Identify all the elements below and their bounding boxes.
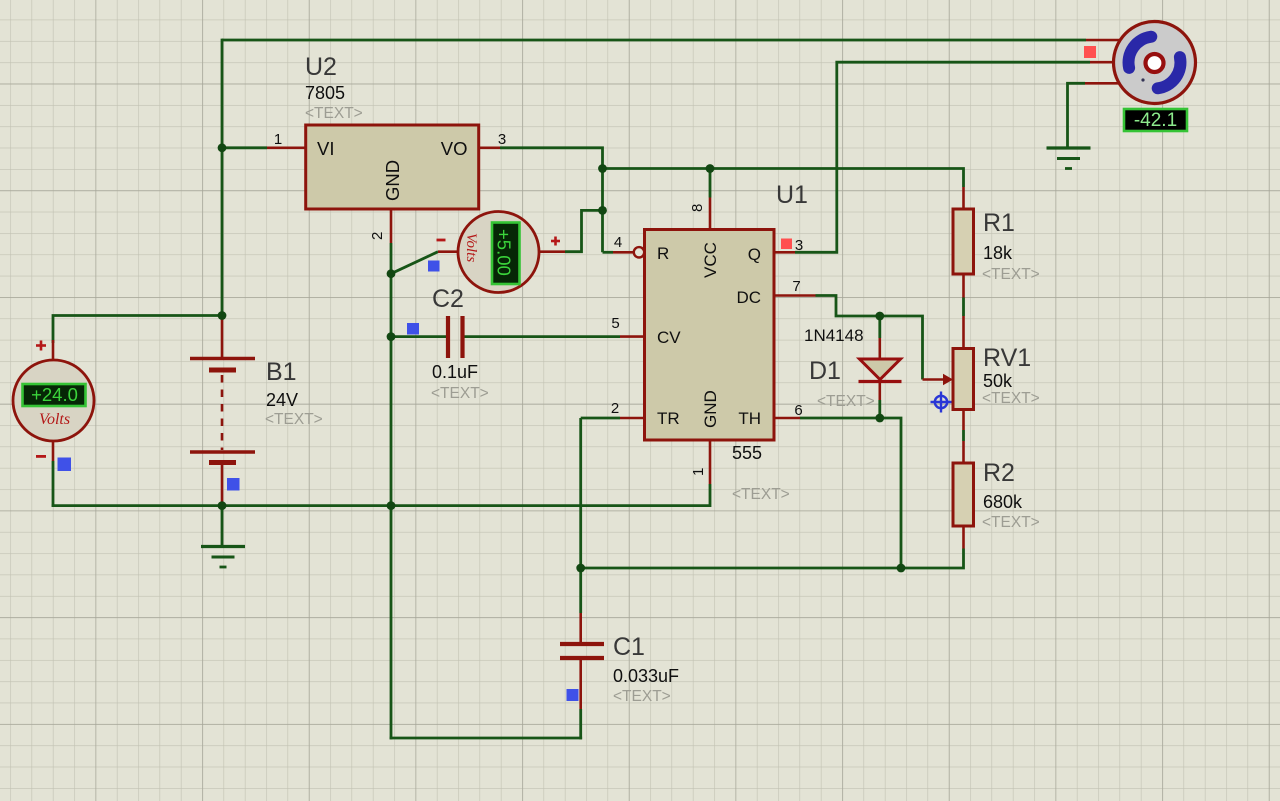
svg-text:1N4148: 1N4148 [804, 326, 864, 345]
wire U2 pin1 link [222, 146, 267, 149]
pin R2 top stub [962, 441, 965, 463]
origin crosshair blue near RV1 [931, 392, 952, 413]
pin voltmeter2 - stub [438, 250, 459, 253]
svg-text:680k: 680k [983, 492, 1023, 512]
potentiometer RV1 body [953, 349, 974, 410]
battery B1 cell2 long plate [190, 450, 255, 453]
svg-text:Volts: Volts [463, 233, 479, 262]
svg-text:7805: 7805 [305, 83, 345, 103]
pin RV1 top stub [962, 316, 965, 349]
svg-text:Volts: Volts [39, 411, 70, 428]
capacitor C2 left plate [446, 316, 450, 358]
battery B1 cell1 long plate [190, 357, 255, 360]
pin U1.4 stub with inversion bubble [613, 251, 633, 254]
wire U2 VO to node [500, 148, 603, 253]
motor display [1124, 109, 1187, 131]
VM1 plus mark [36, 344, 46, 347]
svg-text:R2: R2 [983, 459, 1015, 487]
wire R1 to RV1 mid [962, 298, 965, 317]
svg-text:<TEXT>: <TEXT> [613, 688, 671, 705]
pin R1 bottom stub [962, 274, 965, 298]
wire diagonal to voltmeter2 minus [391, 252, 438, 274]
wire bottom-left ground rail [52, 484, 710, 506]
junction [875, 312, 884, 321]
svg-text:50k: 50k [983, 371, 1013, 391]
svg-text:D1: D1 [809, 357, 841, 385]
diode D1 cathode bar [859, 380, 902, 383]
wire U1 pin8 drop [709, 169, 712, 198]
junction [387, 269, 396, 278]
resistor R1 body [953, 209, 974, 274]
VM2 display [492, 223, 520, 285]
pin D1 anode stub [878, 338, 881, 358]
svg-text:<TEXT>: <TEXT> [431, 385, 489, 402]
ground below B1 [201, 545, 245, 548]
wire motor terminal3 to ground [1068, 83, 1086, 148]
wire voltmeter bottom link [52, 461, 55, 507]
wire C2 left link [391, 335, 446, 338]
svg-text:R: R [657, 244, 669, 263]
regulator U2 body [306, 125, 479, 209]
svg-text:VCC: VCC [701, 242, 720, 278]
svg-text:18k: 18k [983, 243, 1013, 263]
wire U1 Q output to motor [795, 62, 1090, 252]
ground below motor [1047, 146, 1091, 149]
timer U1 body [645, 230, 775, 441]
voltmeter VM1 body [13, 360, 94, 441]
pin U2.2 stub [390, 208, 393, 243]
origin square blue near switch node [428, 261, 440, 272]
origin square blue near B1 [227, 478, 240, 491]
motor arc lower-right [1158, 57, 1181, 88]
svg-text:R1: R1 [983, 209, 1015, 237]
junction [218, 501, 227, 510]
wire C1 bottom link [579, 709, 582, 739]
svg-text:0.1uF: 0.1uF [432, 362, 478, 382]
motor speck [1141, 78, 1144, 81]
wire bottom rail [390, 737, 582, 740]
svg-text:5: 5 [611, 315, 619, 332]
junction [598, 164, 607, 173]
svg-text:CV: CV [657, 328, 681, 347]
pin C1 top stub [579, 613, 582, 642]
junction [875, 414, 884, 423]
pin R1 top stub [962, 187, 965, 209]
pin motor terminal2 stub [1090, 61, 1116, 64]
wire U1 TR link [581, 417, 620, 420]
svg-text:TH: TH [738, 409, 761, 428]
wire U1 TH link [800, 417, 880, 420]
wire B1 ground drop [221, 506, 224, 546]
junction [576, 564, 585, 573]
svg-text:VO: VO [441, 138, 468, 159]
svg-text:VI: VI [317, 138, 334, 159]
svg-text:+5.00: +5.00 [494, 229, 515, 276]
svg-text:RV1: RV1 [983, 344, 1031, 372]
pin C1 bottom stub [579, 659, 582, 709]
svg-text:1: 1 [690, 468, 707, 476]
motor M1 body [1114, 22, 1196, 104]
origin square blue near C2 [407, 323, 419, 335]
selection square red at motor terminal [1084, 46, 1096, 58]
pin U1.5 stub [620, 335, 646, 338]
VM1 display [23, 384, 86, 406]
pin U1.6 stub [773, 417, 800, 420]
wire U2 GND vertical to ground rail and C1 rail [390, 243, 393, 739]
svg-text:555: 555 [732, 443, 762, 463]
resistor R2 body [953, 463, 974, 526]
pin R2 bottom stub [962, 526, 965, 549]
svg-text:2: 2 [369, 232, 386, 240]
svg-text:+24.0: +24.0 [31, 384, 78, 405]
pin U1.8 stub [709, 198, 712, 231]
svg-text:GND: GND [382, 160, 403, 201]
battery B1 cell2 short plate [209, 460, 236, 465]
wire top rail from B1 column to motor + [222, 39, 1086, 42]
voltmeter VM2 body [458, 212, 539, 293]
svg-text:U2: U2 [305, 53, 337, 81]
origin square blue near VM1 [58, 458, 72, 472]
wire D1 cathode to TH rail [880, 400, 901, 568]
capacitor C1 bottom plate [560, 656, 604, 660]
wire left vertical B1 column [221, 39, 224, 316]
VM1 minus mark [36, 455, 46, 458]
pin U2.3 stub [477, 147, 500, 150]
diode D1 triangle [860, 359, 901, 380]
battery B1 dashed middle [221, 375, 224, 450]
svg-text:6: 6 [794, 402, 802, 419]
wire RV1 to R2 mid [962, 430, 965, 441]
svg-text:C1: C1 [613, 633, 645, 661]
pin RV1 bottom stub [962, 410, 965, 430]
svg-text:7: 7 [792, 278, 800, 295]
pin U1.3 stub [773, 251, 795, 254]
VM2 plus mark [551, 240, 560, 243]
battery B1 cell1 short plate [209, 368, 236, 373]
junction [218, 143, 227, 152]
pin U1.1 stub [709, 439, 712, 484]
svg-text:<TEXT>: <TEXT> [982, 266, 1040, 283]
pin RV1 wiper arrow [923, 378, 944, 381]
pin U1.7 stub [773, 294, 816, 297]
svg-text:3: 3 [795, 237, 803, 254]
wire voltmeter2 plus step [565, 210, 603, 251]
junction [387, 501, 396, 510]
pin voltmeter1 - stub [52, 442, 55, 461]
wire C2 right link [465, 335, 621, 338]
junction [706, 164, 715, 173]
svg-text:2: 2 [611, 400, 619, 417]
wire U1 TR vertical through C1 node [579, 418, 582, 613]
svg-text:Q: Q [748, 245, 761, 264]
svg-text:24V: 24V [266, 390, 298, 410]
wire U1 DC to RV1 wiper [816, 296, 923, 380]
junction [598, 206, 607, 215]
svg-text:-42.1: -42.1 [1134, 110, 1177, 131]
selection square red at U1 pin3 [781, 239, 792, 250]
pin B1 + stub [221, 316, 224, 358]
svg-text:<TEXT>: <TEXT> [305, 105, 363, 122]
pin D1 cathode stub [878, 383, 881, 400]
svg-text:TR: TR [657, 409, 680, 428]
svg-text:8: 8 [689, 204, 706, 212]
svg-text:<TEXT>: <TEXT> [817, 393, 875, 410]
capacitor C1 top plate [560, 642, 604, 646]
svg-text:U1: U1 [776, 181, 808, 209]
svg-text:<TEXT>: <TEXT> [732, 486, 790, 503]
pin U1.2 stub [620, 417, 646, 420]
svg-text:B1: B1 [266, 358, 297, 386]
svg-text:4: 4 [614, 234, 622, 251]
svg-text:GND: GND [701, 390, 720, 428]
junction [387, 332, 396, 341]
capacitor C2 right plate [460, 316, 464, 358]
svg-text:DC: DC [736, 288, 761, 307]
junction [897, 564, 906, 573]
svg-text:0.033uF: 0.033uF [613, 666, 679, 686]
svg-text:3: 3 [498, 131, 506, 148]
wire voltmeter top link [53, 316, 222, 344]
motor inner hub [1146, 54, 1164, 72]
pin U2.1 stub [267, 147, 307, 150]
svg-text:C2: C2 [432, 285, 464, 313]
pin motor terminal3 stub [1085, 82, 1125, 85]
wire node to U1 pin4 [603, 251, 614, 254]
wire D1 anode drop [878, 316, 881, 338]
svg-text:<TEXT>: <TEXT> [982, 390, 1040, 407]
VM2 minus mark [437, 239, 446, 242]
pin voltmeter2 + stub [538, 250, 565, 253]
svg-text:1: 1 [274, 131, 282, 148]
svg-text:<TEXT>: <TEXT> [982, 514, 1040, 531]
pin B1 - stub [221, 464, 224, 507]
wire VCC rail to R1 [603, 169, 964, 188]
junction [218, 311, 227, 320]
pin motor terminal1 stub [1086, 39, 1125, 42]
wire TH bottom rail to R2 [581, 549, 964, 569]
svg-text:<TEXT>: <TEXT> [265, 411, 323, 428]
origin square blue near C1 [567, 689, 579, 701]
pin voltmeter1 + stub [52, 340, 55, 361]
motor arc upper-left [1129, 37, 1152, 68]
